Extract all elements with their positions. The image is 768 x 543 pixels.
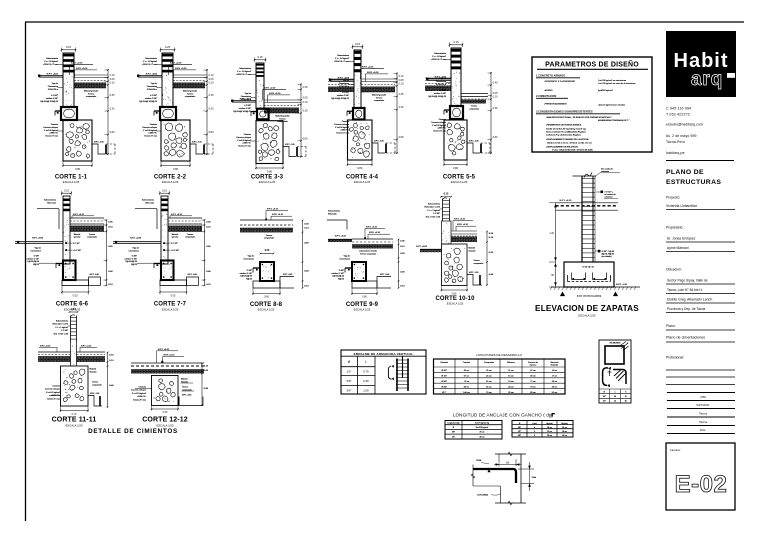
svg-text:ESCALA 1/25: ESCALA 1/25 — [259, 180, 276, 184]
revision table — [667, 393, 735, 434]
elevacion left dimension 1.20 — [549, 203, 557, 262]
svg-text:Material: Material — [74, 233, 81, 236]
corte 5-5 left floor slab — [425, 78, 451, 84]
svg-text:PLANO DE: PLANO DE — [666, 169, 704, 176]
svg-text:Sobrecimiento: Sobrecimiento — [434, 52, 446, 55]
svg-text:+25% P.G. 3" max: +25% P.G. 3" max — [43, 64, 58, 66]
svg-text:Tacna: Tacna — [699, 420, 707, 424]
svg-text:Cimiento: Cimiento — [342, 120, 349, 123]
corte 5-5 wall — [451, 48, 461, 106]
svg-text:N.P.T. -0.45: N.P.T. -0.45 — [380, 274, 389, 276]
corte 4-4 left floor slab — [328, 79, 354, 85]
svg-text:Cimentacion: Cimentacion — [241, 95, 251, 98]
svg-text:F`c=1:10 kg/cm2: F`c=1:10 kg/cm2 — [432, 124, 446, 127]
en muros stirrup square — [605, 342, 629, 365]
svg-text:CORTE 6-6: CORTE 6-6 — [56, 302, 89, 308]
svg-text:1@.05,4@.10: 1@.05,4@.10 — [125, 261, 137, 263]
corte 2-2 wall — [162, 53, 173, 107]
svg-text:15 cm: 15 cm — [552, 370, 558, 372]
lamina box — [666, 443, 735, 510]
svg-text:Plano:: Plano: — [666, 324, 676, 328]
svg-text:1.20: 1.20 — [549, 232, 554, 235]
corte 7-7 right floor slab — [168, 218, 202, 224]
svg-text:espesor: espesor — [530, 364, 537, 367]
corte 10-10 bottom dimension — [441, 286, 468, 296]
svg-text:N.P.T. +0.15: N.P.T. +0.15 — [267, 209, 279, 211]
svg-text:Ø 1": Ø 1" — [442, 392, 446, 394]
svg-text:0.50: 0.50 — [163, 411, 168, 414]
corte 12-12 right labels — [181, 378, 195, 392]
corte 5-5 bottom dimension 0.80 — [443, 160, 468, 170]
corte 1-1 left annotations — [38, 57, 63, 137]
svg-text:5: 5 — [534, 431, 535, 433]
svg-text:0.25x0.20 m: 0.25x0.20 m — [339, 86, 350, 88]
svg-text:+25% P.G. 3" max: +25% P.G. 3" max — [431, 59, 446, 61]
corte 1-1 detail — [38, 45, 115, 184]
svg-text:Plano de cimentaciones: Plano de cimentaciones — [666, 336, 705, 340]
svg-text:-PRESION ADMISIBLE: -PRESION ADMISIBLE — [544, 103, 567, 106]
svg-text:0.10: 0.10 — [399, 75, 404, 78]
elevacion section arrows — [560, 292, 618, 298]
svg-text:Cimentacion: Cimentacion — [128, 249, 139, 252]
svg-text:DX=0.2 cm &lt; 1.75 cm ; DY=0.: DX=0.2 cm &lt; 1.75 cm ; DY=0.11 cm &lt;… — [547, 142, 592, 145]
corte 9-9 detail — [325, 210, 405, 312]
svg-text:Provincia y Dep. de Tacna: Provincia y Dep. de Tacna — [667, 307, 705, 311]
svg-text:Ayme Mamani: Ayme Mamani — [667, 246, 689, 250]
svg-text:Diametro: Diametro — [440, 361, 448, 364]
svg-text:47 cm: 47 cm — [530, 370, 536, 372]
svg-text:Cimiento: Cimiento — [53, 385, 60, 388]
corte 6-6 right floor slab — [70, 218, 104, 224]
svg-text:Ø 1/2": Ø 1/2" — [441, 376, 447, 378]
en muros hook shape — [603, 367, 612, 387]
svg-text:1 O 3/8": 1 O 3/8" — [433, 213, 440, 215]
corte 7-7 wall stipple — [162, 235, 164, 237]
svg-text:compactado: compactado — [374, 99, 384, 102]
corte 8-8 footing right step — [280, 274, 294, 288]
svg-text:0.10: 0.10 — [209, 81, 214, 84]
svg-text:VIGA: VIGA — [476, 459, 482, 462]
svg-text:O 1/2" @ .15: O 1/2" @ .15 — [582, 267, 594, 269]
svg-text:N.P.T. -1.05: N.P.T. -1.05 — [94, 142, 104, 144]
corte 2-2 right floor slab — [173, 75, 207, 81]
corte 3-3 fill labels — [275, 115, 290, 124]
svg-text:0.25x0.20 m: 0.25x0.20 m — [48, 89, 59, 91]
hook detail column lines — [495, 452, 526, 505]
corte 8-8 NPT labels — [265, 209, 292, 221]
svg-text:42 cm: 42 cm — [464, 370, 470, 372]
svg-text:F`c + 1:8 kg/cm2: F`c + 1:8 kg/cm2 — [237, 70, 251, 73]
svg-text:R@.25: R@.25 — [131, 264, 137, 266]
svg-text:31 cm: 31 cm — [486, 370, 492, 372]
corte 8-8 left annotations — [240, 256, 254, 281]
svg-text:ELEVACION DE ZAPATAS: ELEVACION DE ZAPATAS — [535, 304, 639, 313]
corte 4-4 fill labels — [372, 94, 387, 103]
svg-text:N.P.T. +0.15: N.P.T. +0.15 — [81, 345, 91, 347]
svg-text:-PARAMETROS DE FUERZA SISMICA: -PARAMETROS DE FUERZA SISMICA — [546, 124, 582, 127]
svg-text:Granular: Granular — [469, 250, 476, 252]
sheet border left line — [25, 22, 27, 521]
svg-text:0.15: 0.15 — [162, 189, 167, 192]
corte 7-7 footing right step — [187, 274, 199, 285]
svg-text:Tamano 6" max: Tamano 6" max — [238, 146, 251, 148]
corte 1-1 fill labels — [84, 90, 99, 99]
svg-text:N.P.F. +0.10: N.P.F. +0.10 — [272, 214, 284, 216]
svg-text:Material: Material — [172, 233, 179, 236]
svg-text:Terreno: Terreno — [279, 117, 285, 120]
svg-text:1 O 3/8": 1 O 3/8" — [61, 330, 68, 332]
svg-text:ldg (cm): ldg (cm) — [546, 423, 553, 425]
svg-text:estribos O 1/4": estribos O 1/4" — [125, 257, 138, 260]
corte 5-5 detail — [420, 40, 499, 184]
svg-text:Terreno: Terreno — [182, 387, 188, 389]
svg-text:N.P.T. +0.15: N.P.T. +0.15 — [170, 63, 182, 65]
corte 6-6 footing right step — [89, 274, 101, 285]
svg-text:compactado: compactado — [87, 236, 97, 239]
detalle de cimientos heading — [88, 428, 178, 435]
svg-text:-DESPLAZAMIENTOS RELATIVOS: -DESPLAZAMIENTOS RELATIVOS — [546, 146, 578, 149]
svg-text:1/2": 1/2" — [518, 431, 521, 433]
svg-text:86 cm: 86 cm — [464, 386, 470, 388]
corte 4-4 left annotations — [329, 54, 354, 134]
svg-text:1.05: 1.05 — [363, 389, 369, 393]
svg-text:fy=4200 kg/cm2: fy=4200 kg/cm2 — [598, 90, 614, 92]
svg-text:estribos O 1/4": estribos O 1/4" — [239, 107, 251, 110]
svg-text:39 cm: 39 cm — [547, 435, 552, 437]
svg-text:17 cm: 17 cm — [552, 376, 558, 378]
svg-text:2 O 1/2": 2 O 1/2" — [73, 243, 80, 245]
svg-text:N.P.T. -1.05: N.P.T. -1.05 — [469, 141, 479, 143]
corte 11-11 top dimension 0.15 — [69, 309, 79, 313]
corte 12-12 title — [142, 417, 187, 428]
svg-text:51 cm: 51 cm — [552, 392, 558, 394]
svg-text:N.P.T. -1.05: N.P.T. -1.05 — [285, 144, 295, 146]
svg-text:15: 15 — [614, 401, 616, 403]
svg-text:Concreto ciclopeo: Concreto ciclopeo — [43, 126, 58, 129]
svg-text:Viga de: Viga de — [35, 248, 41, 250]
corte 8-8 right dimension chain — [302, 220, 310, 289]
corte 2-2 viga left hook — [154, 111, 160, 116]
corte 12-12 bottom dimension 0.50 — [151, 406, 179, 415]
svg-text:1/2": 1/2" — [603, 401, 606, 403]
svg-text:compactado: compactado — [474, 262, 484, 265]
proyecto field — [666, 196, 735, 210]
elevacion left dimension .50 — [549, 262, 557, 287]
svg-text:F`c=1:10 kg/cm2: F`c=1:10 kg/cm2 — [237, 139, 251, 142]
svg-text:Av. 2 de mayo 959: Av. 2 de mayo 959 — [666, 134, 697, 138]
corte 10-10 left ground line — [416, 246, 443, 253]
corte 10-10 top dimension 0.15 — [440, 193, 452, 197]
corte 5-5 left annotations — [426, 52, 451, 132]
svg-text:+1 O 3/8": +1 O 3/8" — [171, 250, 179, 252]
svg-text:Sobrecimiento: Sobrecimiento — [328, 210, 340, 213]
corte 3-3 title — [251, 175, 284, 185]
corte 4-4 footing stones — [349, 122, 370, 158]
svg-text:C 945 116 994: C 945 116 994 — [666, 107, 691, 111]
elevacion footing rebar label — [582, 267, 594, 269]
svg-text:9/07/2021: 9/07/2021 — [696, 403, 710, 407]
svg-text:Reforzado: Reforzado — [328, 212, 337, 215]
svg-text:F`c + 1 kg/cm2: F`c + 1 kg/cm2 — [427, 209, 440, 212]
corte 10-10 stone footing — [442, 244, 468, 286]
corte 7-7 left step leader — [135, 209, 157, 229]
svg-text:0.10: 0.10 — [303, 101, 308, 104]
svg-text:ESCALA 1/25: ESCALA 1/25 — [354, 180, 371, 184]
svg-text:N.P.T. +0.00: N.P.T. +0.00 — [130, 237, 142, 239]
corte 10-10 right floor slab — [451, 231, 477, 236]
svg-text:N.P.T. +0.00: N.P.T. +0.00 — [32, 237, 44, 239]
corte 5-5 title — [443, 175, 476, 185]
svg-text:ESCALA 1/25: ESCALA 1/25 — [156, 424, 174, 428]
corte 3-3 neighbour step — [283, 144, 306, 157]
corte 4-4 title — [346, 175, 379, 185]
parametros section 2 cimentacion — [536, 94, 625, 107]
svg-text:15 cm: 15 cm — [508, 376, 514, 378]
corte 5-5 wall stipple — [451, 72, 460, 106]
corte 6-6 footing strip — [62, 280, 89, 286]
corte 4-4 neighbour step — [372, 141, 395, 154]
corte 6-6 right slab labels — [74, 233, 97, 239]
svg-text:0.80: 0.80 — [173, 167, 179, 171]
elevacion NPT label — [560, 200, 573, 202]
corte 2-2 left annotations — [137, 57, 162, 137]
corte 8-8 floor slab band — [240, 220, 293, 228]
elevacion column — [582, 176, 595, 262]
svg-text:Sismo resistente Rx =3 (Albani: Sismo resistente Rx =3 (Albanileria Regu… — [546, 130, 586, 133]
svg-text:granular: granular — [74, 237, 81, 239]
svg-text:2 O 1/2" +: 2 O 1/2" + — [605, 191, 614, 193]
svg-text:0.70: 0.70 — [72, 413, 77, 416]
svg-text:Reforzado: Reforzado — [47, 201, 56, 204]
svg-text:Vivienda Unifamiliar: Vivienda Unifamiliar — [666, 204, 698, 208]
svg-text:F`c=1:10 kg/cm2: F`c=1:10 kg/cm2 — [143, 129, 157, 132]
svg-text:r (cm): r (cm) — [532, 422, 537, 425]
corte 4-4 wall stipple — [355, 75, 361, 105]
en muros corner bracket — [613, 370, 626, 385]
svg-text:+25% P.G. 3" max: +25% P.G. 3" max — [236, 74, 251, 76]
svg-text:Material: Material — [181, 378, 188, 381]
elevacion ground line — [550, 287, 640, 290]
svg-text:F`c=1:10 kg/cm2: F`c=1:10 kg/cm2 — [46, 391, 60, 394]
corte 5-5 lower right slab — [461, 94, 488, 100]
svg-text:N.P.T. +0.15: N.P.T. +0.15 — [362, 67, 374, 69]
svg-text:A (ver cimentacion-planta): A (ver cimentacion-planta) — [577, 294, 601, 297]
svg-text:+30% P.G.: +30% P.G. — [242, 143, 251, 145]
corte 1-1 viga left hook — [55, 111, 61, 116]
svg-text:O 3/8": O 3/8" — [339, 270, 345, 272]
svg-text:R@.25: R@.25 — [246, 278, 252, 280]
svg-text:Rc=210 kg/cm2: Rc=210 kg/cm2 — [476, 427, 489, 429]
plano field — [666, 324, 735, 342]
corte 6-6 left annotations — [27, 248, 63, 266]
corte 7-7 left sobrecimiento labels — [142, 199, 154, 205]
corte 9-9 footing right step — [377, 274, 391, 288]
corte 2-2 bottom dimension 0.80 — [160, 161, 191, 171]
svg-text:Material granular: Material granular — [372, 94, 387, 97]
elevacion mid right rebar label 2 — [595, 250, 614, 258]
svg-text:Viga de: Viga de — [52, 83, 58, 85]
svg-text:0.15: 0.15 — [257, 55, 263, 59]
svg-text:Longitud anclaje: Longitud anclaje — [447, 422, 459, 425]
svg-text:20 cm: 20 cm — [562, 431, 567, 433]
corte 3-3 N.P.T level labels — [263, 88, 291, 103]
svg-text:Ø 3/4": Ø 3/4" — [441, 386, 447, 388]
svg-text:0.35: 0.35 — [493, 107, 498, 110]
profesional field — [666, 356, 735, 385]
svg-text:Sobrecimiento: Sobrecimiento — [56, 320, 68, 323]
en muros mini table — [599, 389, 631, 403]
corte 11-11 right dimension chain — [107, 352, 115, 408]
svg-text:24 cm: 24 cm — [547, 427, 552, 429]
svg-text:ESCALA 1/25: ESCALA 1/25 — [162, 180, 179, 184]
svg-text:0.10: 0.10 — [110, 74, 115, 77]
corte 6-6 left ground line — [15, 237, 63, 243]
svg-text:E-02: E-02 — [675, 471, 728, 498]
corte 1-1 footing stones — [65, 124, 90, 159]
corte 7-7 top dimension 0.15 — [159, 189, 170, 195]
svg-text:Cimiento: Cimiento — [51, 123, 58, 126]
svg-text:coeficiente R y =3 (Estructura: coeficiente R y =3 (Estructura Regular) — [546, 133, 581, 136]
svg-text:0.50: 0.50 — [73, 294, 78, 297]
corte 3-3 viga de cimentacion — [257, 109, 269, 120]
svg-text:Viga de: Viga de — [248, 256, 254, 258]
svg-text:0.05: 0.05 — [110, 78, 115, 81]
svg-text:0.15: 0.15 — [444, 193, 449, 195]
sheet border top line — [25, 21, 744, 23]
svg-text:3/4": 3/4" — [347, 389, 352, 393]
svg-text:0.05: 0.05 — [493, 92, 498, 95]
svg-text:0.35: 0.35 — [399, 93, 404, 96]
svg-text:0.25x0.20 m: 0.25x0.20 m — [147, 89, 158, 91]
corte 7-7 detail — [113, 189, 211, 311]
corte 5-5 lower right slab labels — [469, 106, 479, 111]
empalme rebar drawing — [388, 357, 409, 392]
svg-text:0.30: 0.30 — [399, 106, 404, 109]
corte 6-6 left step leader — [37, 209, 59, 229]
corte 10-10 detail — [416, 193, 494, 305]
svg-text:ESCALA 1/25: ESCALA 1/25 — [63, 180, 80, 184]
svg-text:T 052 422272: T 052 422272 — [666, 113, 690, 117]
svg-text:CORTE 3-3: CORTE 3-3 — [251, 175, 284, 181]
corte 4-4 bottom dimension 0.80 — [347, 160, 373, 170]
svg-text:1@.05,4@.10,R@.25: 1@.05,4@.10,R@.25 — [331, 98, 349, 100]
svg-text:-ACERO: -ACERO — [544, 89, 553, 92]
svg-text:Viga de: Viga de — [245, 93, 251, 95]
corte 3-3 viga left hook — [251, 112, 257, 117]
corte 3-3 wall stipple — [256, 80, 263, 108]
svg-text:58 cm: 58 cm — [530, 376, 536, 378]
svg-text:0.15: 0.15 — [66, 45, 72, 49]
svg-text:Ver cuadro de: Ver cuadro de — [601, 167, 613, 170]
corte 1-1 N.P.T level labels — [70, 63, 98, 78]
svg-text:N.P.T. +0.15: N.P.T. +0.15 — [71, 63, 83, 65]
svg-text:20: 20 — [625, 401, 627, 403]
svg-text:0.05: 0.05 — [399, 79, 404, 82]
svg-text:1@.05,4@.10,R@.25: 1@.05,4@.10,R@.25 — [40, 101, 58, 103]
corte 4-4 cimiento footing — [348, 120, 373, 160]
elevacion title — [535, 304, 639, 318]
corte 11-11 rebar ladder — [71, 315, 77, 342]
corte 11-11 top left annotations — [52, 320, 70, 336]
svg-text:4 O 3/8": 4 O 3/8" — [244, 105, 251, 107]
svg-text:0.80: 0.80 — [303, 137, 308, 140]
corte 7-7 right dimension chain — [202, 219, 212, 286]
svg-text:Sobrecimiento: Sobrecimiento — [428, 203, 440, 206]
svg-text:+25% P.G. 3" max: +25% P.G. 3" max — [142, 64, 157, 66]
plano de estructuras heading — [666, 169, 721, 186]
corte 10-10 top left annotations — [424, 203, 442, 219]
svg-text:CORTE 5-5: CORTE 5-5 — [443, 175, 476, 181]
svg-text:4@.10, R@.25: 4@.10, R@.25 — [602, 254, 615, 256]
corte 4-4 wall — [354, 50, 361, 108]
corte 5-5 footing stones — [447, 123, 465, 155]
svg-text:19 cm: 19 cm — [508, 381, 514, 383]
contact info — [666, 107, 703, 156]
svg-text:0.10: 0.10 — [110, 81, 115, 84]
svg-text:0.30: 0.30 — [209, 108, 214, 111]
corte 1-1 right dimension chain — [105, 69, 116, 155]
svg-text:4 O 3/8": 4 O 3/8" — [342, 92, 349, 94]
corte 1-1 neighbour step — [92, 142, 115, 155]
svg-text:Granular: Granular — [90, 371, 97, 373]
svg-text:compactado: compactado — [86, 95, 96, 98]
svg-text:Cimentacion: Cimentacion — [147, 85, 157, 88]
svg-text:Tamano 6" max: Tamano 6" max — [45, 136, 58, 138]
svg-text:Sobrecimiento: Sobrecimiento — [142, 199, 154, 202]
corte 9-9 terrain labels — [359, 250, 377, 256]
corte 1-1 bottom dimension 0.80 — [62, 161, 93, 171]
svg-text:PARAMETROS DE DISEÑO: PARAMETROS DE DISEÑO — [545, 60, 639, 69]
svg-text:Reforzado f`c=175: Reforzado f`c=175 — [52, 323, 68, 326]
svg-text:Viga de: Viga de — [344, 256, 350, 258]
svg-text:5/8": 5/8" — [518, 435, 521, 437]
elevacion NPZ label — [616, 284, 628, 286]
svg-text:f`c=210 kg/cm2 en estructuras: f`c=210 kg/cm2 en estructuras — [598, 79, 626, 82]
corte 3-3 wall — [256, 63, 264, 109]
svg-text:Tamano 6" max: Tamano 6" max — [144, 136, 157, 138]
parametros section 1 concreto armado — [536, 74, 636, 93]
corte 6-6 title — [56, 302, 89, 312]
corte 12-12 footing stones — [159, 384, 166, 390]
corte 3-3 detail — [231, 55, 308, 184]
svg-text:estribos O 1/4": estribos O 1/4" — [332, 272, 345, 275]
hook detail viga label — [476, 459, 489, 464]
svg-text:Lamina:: Lamina: — [670, 448, 681, 452]
svg-text:N.P.F. +0.10: N.P.F. +0.10 — [164, 355, 176, 357]
svg-text:1° piso : DX=0.15 &lt; 0.005 ;: 1° piso : DX=0.15 &lt; 0.005 ; DY=0.11 &… — [552, 148, 593, 151]
corte 1-1 title — [55, 175, 88, 185]
svg-text:compactado: compactado — [92, 383, 102, 386]
svg-text:F`c=1:10 kg/cm2: F`c=1:10 kg/cm2 — [44, 129, 58, 132]
corte 8-8 viga top dimension 0.25 — [260, 250, 275, 254]
svg-text:0.35: 0.35 — [110, 94, 115, 97]
svg-text:1/50: 1/50 — [700, 395, 706, 399]
svg-text:24 cm: 24 cm — [508, 386, 514, 388]
svg-text:N.P.F. +0.10: N.P.F. +0.10 — [269, 93, 281, 95]
corte 9-9 viga de cimentacion — [352, 262, 366, 281]
parametros section 3 sismorresistentes — [536, 110, 630, 152]
corte 7-7 footing strip — [160, 280, 187, 286]
svg-text:+30% P.G.: +30% P.G. — [340, 130, 349, 132]
svg-text:Cimentacion: Cimentacion — [30, 249, 41, 252]
corte 11-11 left annotations — [45, 385, 61, 401]
svg-text:Terreno: Terreno — [89, 234, 95, 236]
svg-text:Cimentacion: Cimentacion — [243, 257, 254, 260]
svg-text:1.CONCRETO ARMADO: 1.CONCRETO ARMADO — [536, 74, 565, 78]
corte 3-3 bottom dimension 0.80 — [255, 164, 284, 174]
svg-text:-CONCRETO F`C=210KG/CM2: -CONCRETO F`C=210KG/CM2 — [544, 80, 576, 83]
svg-text:1@.05,4@.10,R@.25: 1@.05,4@.10,R@.25 — [428, 96, 446, 98]
